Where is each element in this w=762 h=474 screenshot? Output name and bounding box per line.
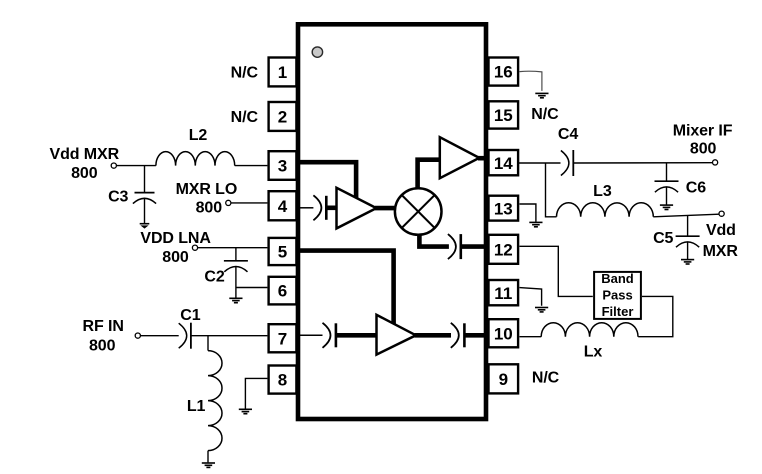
svg-text:Vdd: Vdd [706,222,736,239]
pin 5 [269,238,297,265]
pin 3 [269,151,297,180]
wire VDD LNA to pin 5 [198,247,268,249]
ground C3 (bar + solid triangle) [140,224,150,229]
capacitor C1 [179,323,191,349]
svg-text:16: 16 [494,63,513,82]
svg-text:C5: C5 [653,230,673,247]
terminal VDD LNA [192,245,197,250]
wire L3 to Vdd MXR terminal [653,214,719,217]
pin 8 [269,366,297,394]
pin 4 [269,191,297,220]
inductor L3 [557,203,654,217]
ground L1 [202,463,215,467]
wire pin 12 to band pass filter [520,246,593,296]
capacitor C4 [561,150,573,176]
wire pin 5 supply feed to LNA amp [299,251,394,327]
pin 2 [269,102,297,131]
capacitor LNA output (internal, to pin 10) [451,323,465,348]
ground C5 [681,260,694,264]
svg-text:Vdd MXR: Vdd MXR [50,146,120,163]
node Vdd MXR (right) label [703,222,739,260]
pin 15 [489,101,519,128]
inductor L2 [156,152,235,166]
pin 11 [489,280,519,305]
wire Vdd MXR to L2 [116,165,155,167]
pin 10 [489,319,519,347]
svg-text:MXR LO: MXR LO [176,181,238,198]
svg-text:10: 10 [494,324,513,343]
wire pin 16 to ground [520,71,542,91]
svg-text:800: 800 [196,200,223,217]
svg-text:12: 12 [494,241,513,260]
node RF IN label [83,318,124,354]
pin 9 [489,364,519,393]
wire pin 4 to LO input cap [299,207,313,209]
wire pin 14 junction down to L3 [546,163,557,217]
svg-text:13: 13 [494,199,513,218]
terminal Mixer IF [713,160,718,165]
svg-text:800: 800 [89,338,116,355]
svg-text:L2: L2 [189,127,208,144]
wire cap to pin 12 [461,244,489,249]
pin 13 [489,196,519,221]
svg-text:3: 3 [278,157,287,176]
svg-text:Mixer IF: Mixer IF [673,123,733,140]
wire LNA amp output to output cap [415,333,452,338]
IC U1 body [298,24,486,419]
inductor L1 [208,336,222,463]
pin 7 [269,324,297,352]
svg-text:N/C: N/C [231,109,259,126]
band pass filter [594,271,641,319]
svg-text:1: 1 [278,63,287,82]
svg-text:RF IN: RF IN [83,318,124,335]
wire LO amp output to mixer [375,206,397,211]
wire pin 3 supply feed to LO amp [299,162,356,201]
svg-text:N/C: N/C [231,64,259,81]
svg-text:2: 2 [278,108,287,127]
svg-text:800: 800 [690,141,717,158]
inductor Lx [541,323,638,337]
pin 1 [269,58,297,87]
wire LNA cap to amp [336,333,377,338]
svg-text:800: 800 [71,165,98,182]
svg-text:VDD LNA: VDD LNA [140,230,211,247]
ground C6 [660,205,673,209]
wire pin 10 to Lx [520,336,542,338]
svg-text:9: 9 [499,370,508,389]
capacitor C6 [655,163,679,205]
svg-text:Pass: Pass [602,288,632,303]
wire C1 to pin 7 [191,335,268,337]
svg-text:15: 15 [494,106,513,125]
op-amp IF buffer [440,137,480,178]
pin 14 [489,150,519,175]
svg-text:C3: C3 [108,189,128,206]
wire C2 to pin 6 [236,287,268,289]
svg-text:6: 6 [278,282,287,301]
capacitor LNA input (internal) [323,323,336,348]
wire L2 to pin 3 [235,165,268,167]
wire pin 11 to ground [520,288,542,306]
pin 12 [489,235,519,264]
wire mixer to pin 12 cap [419,231,449,247]
svg-text:L1: L1 [187,398,206,415]
node MXR LO label [176,181,238,217]
pin 1 indicator dot [312,47,322,57]
capacitor mixer output (internal, to pin 12) [448,234,461,259]
terminal RF IN [135,333,140,338]
svg-text:C4: C4 [558,126,578,143]
svg-text:5: 5 [278,243,287,262]
svg-text:N/C: N/C [532,370,560,387]
terminal MXR LO [226,200,231,205]
svg-text:C1: C1 [180,307,200,324]
ground pin 13 [529,222,542,226]
wire mixer to IF amp [418,160,441,192]
svg-text:800: 800 [162,249,189,266]
svg-text:MXR: MXR [703,243,739,260]
svg-text:4: 4 [278,197,288,216]
ground pin 11 [535,308,548,312]
capacitor C2 [224,248,248,298]
ground C2 [229,298,242,302]
wire IF amp output to pin 14 [478,156,489,161]
svg-text:8: 8 [278,371,287,390]
wire pin 14 to C4 [519,162,561,164]
wire pin 7 to LNA input cap [299,334,323,336]
wire pin 13 to ground [520,204,536,222]
mixer U1 (circle with X) [395,188,442,235]
ground pin 16 [535,93,548,97]
pin 6 [269,277,297,305]
capacitor C5 [676,216,700,260]
svg-text:N/C: N/C [531,106,559,123]
wire LO cap to amp [327,206,337,211]
capacitor C3 [133,166,156,224]
svg-text:Filter: Filter [602,304,634,319]
svg-text:14: 14 [494,154,513,173]
svg-text:C2: C2 [204,269,224,286]
wire cap to pin 10 [465,333,489,338]
node Vdd MXR (left supply) label [50,146,120,182]
node VDD LNA label [140,230,211,266]
svg-text:Band: Band [601,271,634,286]
wire band pass filter to Lx [638,296,673,336]
wire RF IN to C1 [140,335,178,337]
ground pin 8 [239,409,252,413]
node Mixer IF label [673,123,733,158]
svg-text:C6: C6 [686,179,706,196]
svg-text:11: 11 [494,284,512,303]
svg-text:Lx: Lx [584,344,603,361]
terminal Vdd MXR (right) [719,211,724,216]
wire MXR LO to pin 4 [231,202,268,204]
pin 16 [489,58,519,86]
svg-text:7: 7 [278,329,287,348]
svg-text:L3: L3 [593,183,612,200]
wire pin 8 to ground [245,378,267,408]
terminal Vdd MXR [111,163,116,168]
capacitor LO input (internal) [313,195,326,220]
op-amp LNA [377,315,416,355]
wire C4 to Mixer IF terminal [573,162,712,164]
op-amp LO buffer [337,188,377,229]
